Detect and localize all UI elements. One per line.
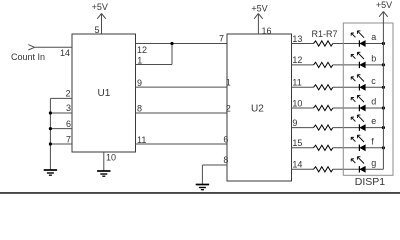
svg-text:e: e [371,116,376,126]
svg-text:14: 14 [60,48,70,58]
wire: resistor R6 to LED f cathode [333,147,360,149]
IC U2 (BCD to 7-seg decoder) body [227,34,292,181]
ground U2 pin 8 [196,185,209,190]
svg-text:d: d [371,97,376,107]
svg-text:b: b [371,53,376,63]
wire: LED g anode to +5V rail [365,168,383,170]
wire: resistor R3 to LED c cathode [333,86,360,88]
svg-text:8: 8 [223,155,228,165]
resistor R4 [314,105,333,110]
junction node rail / LED d [382,106,385,109]
svg-text:U2: U2 [251,104,264,115]
svg-text:g: g [371,158,376,168]
svg-text:3: 3 [66,103,71,113]
svg-text:6: 6 [66,119,71,129]
wire: U1 pin 1 horizontal [136,64,173,66]
junction node on pin12 net [170,42,173,45]
resistor R6 [314,145,333,150]
svg-text:11: 11 [292,78,301,88]
power +5V arrow (U1 pin 5) [97,14,106,19]
wire: U1 pin 3 to bus [50,112,72,114]
wire: resistor R5 to LED e cathode [333,127,360,129]
svg-text:R1-R7: R1-R7 [312,29,338,39]
svg-text:5: 5 [94,25,99,35]
svg-text:9: 9 [292,118,297,128]
junction node rail / LED b [382,63,385,66]
resistor R5 [314,125,333,130]
wire: U1 pin 7 to bus [50,143,72,145]
svg-text:8: 8 [137,104,142,114]
wire: LED c anode to +5V rail [365,86,383,88]
wire: U2 pin 15 to resistor R6 [292,147,314,149]
svg-text:10: 10 [292,98,302,108]
wire: U2 pin 9 to resistor R5 [292,127,314,129]
ground U1 pin 10 [97,171,110,176]
svg-text:U1: U1 [98,88,111,99]
svg-text:+5V: +5V [376,0,392,10]
svg-text:7: 7 [219,33,224,43]
wire: U1 pin 10 to ground [103,152,105,171]
svg-text:a: a [371,32,376,42]
wire: U2 pin 12 to resistor R2 [292,64,314,66]
svg-text:1: 1 [137,56,142,66]
svg-text:6: 6 [223,134,228,144]
LED e (segment e) [351,115,365,131]
svg-text:10: 10 [106,152,116,162]
svg-text:2: 2 [65,89,70,99]
wire: U2 pin 10 to resistor R4 [292,107,314,109]
svg-text:+5V: +5V [251,4,267,14]
resistor R1 [314,41,333,46]
svg-text:7: 7 [66,135,71,145]
wire: LED e anode to +5V rail [365,127,383,129]
wire: U1 pin 12 to U2 pin 7 [136,43,228,45]
wire: resistor R1 to LED a cathode [333,43,360,45]
resistor R2 [314,62,333,67]
junction node at bus / pin 7 [49,142,52,145]
svg-text:13: 13 [292,34,302,44]
LED c (segment c) [351,75,365,91]
wire: U2 pin 13 to resistor R1 [292,43,314,45]
wire: U2 pin 14 to resistor R7 [292,168,314,170]
svg-text:15: 15 [292,138,302,148]
svg-text:16: 16 [262,26,272,36]
wire: U1 pin 2 to left ground bus [50,97,72,99]
wire: +5V rail down through display [382,12,384,170]
wire: U1 pin 6 to bus [50,128,72,130]
resistor R7 [314,167,333,172]
wire: U2 ground drop [201,165,203,185]
LED d (segment d) [351,95,365,111]
power +5V arrow (display rail) [379,12,388,17]
wire: LED b anode to +5V rail [365,64,383,66]
svg-text:DISP1: DISP1 [355,176,386,188]
svg-text:Count In: Count In [11,52,45,62]
junction node rail / LED c [382,86,385,89]
junction node rail / LED e [382,126,385,129]
input connector Count In [28,45,34,50]
wire: Count In to U1 pin 14 [35,46,72,48]
wire: left ground bus vertical [49,98,51,170]
resistor R3 [314,85,333,90]
display DISP1 body (dashed outline box) [343,23,393,175]
wire: resistor R2 to LED b cathode [333,64,360,66]
wire: resistor R4 to LED d cathode [333,107,360,109]
LED a (segment a) [351,31,365,47]
svg-text:11: 11 [137,135,146,145]
wire: +5V to U1 pin 5 [101,14,103,35]
wire: U1 pin 11 to U2 pin 6 [136,143,228,145]
LED b (segment b) [351,52,365,68]
svg-text:12: 12 [292,55,302,65]
wire: LED f anode to +5V rail [365,147,383,149]
svg-text:c: c [371,76,376,86]
LED g (segment g) [351,157,365,173]
IC U1 (decade counter) body [72,34,136,152]
wire: LED d anode to +5V rail [365,107,383,109]
junction node at bus / pin 3 [49,111,52,114]
wire: +5V to U2 pin 16 [257,14,259,35]
wire: U1 pin 8 to U2 pin 2 [136,112,228,114]
ground left bus [44,170,57,175]
wire: U1 pin 9 to U2 pin 1 [136,86,228,88]
svg-text:14: 14 [292,160,302,170]
wire: resistor R7 to LED g cathode [333,168,360,170]
wire: U2 pin 11 to resistor R3 [292,86,314,88]
LED f (segment f) [351,135,365,151]
bottom border line [0,192,400,194]
svg-text:+5V: +5V [92,2,108,12]
junction node rail / LED f [382,146,385,149]
wire: pin 1 riser to pin 12 net [171,44,173,65]
junction node rail / LED a [382,42,385,45]
wire: U2 pin 8 to ground [202,164,227,166]
power +5V arrow (U2 pin 16) [254,14,263,19]
svg-text:9: 9 [137,78,142,88]
junction node at bus / pin 6 [49,127,52,130]
wire: LED a anode to +5V rail [365,43,383,45]
svg-text:12: 12 [137,45,147,55]
